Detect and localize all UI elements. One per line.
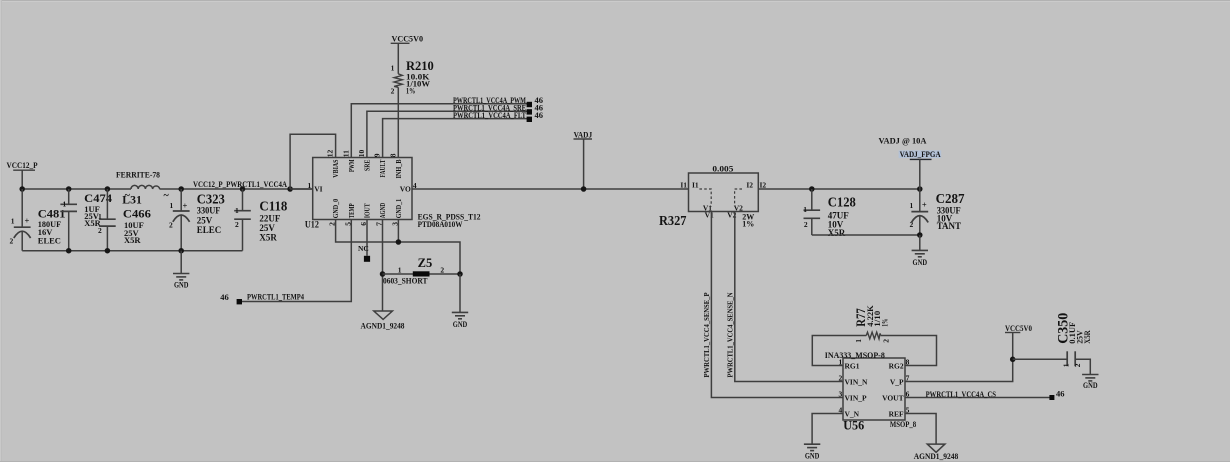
node junction C118 (240, 186, 246, 192)
svg-text:1: 1 (910, 201, 914, 210)
resistor R327 body (689, 173, 759, 212)
svg-text:PWRCTL1_VCC4_SENSE_N: PWRCTL1_VCC4_SENSE_N (726, 292, 735, 378)
svg-text:C118: C118 (259, 200, 287, 215)
svg-text:INH_B: INH_B (394, 160, 403, 179)
wire net PWRCTL1_VCC4A_SRE (367, 111, 529, 157)
svg-text:FERRITE-78: FERRITE-78 (116, 170, 160, 180)
ground AGND1_9248 triangle (374, 311, 393, 319)
svg-text:AGND1_9248: AGND1_9248 (914, 451, 959, 461)
svg-text:RG2: RG2 (889, 362, 904, 371)
wire VOUT net (905, 397, 1050, 399)
svg-text:TEMP: TEMP (347, 203, 356, 218)
svg-text:C128: C128 (828, 196, 856, 211)
svg-text:R210: R210 (406, 59, 434, 73)
svg-text:RG1: RG1 (845, 362, 860, 371)
resistor R210 (394, 74, 402, 88)
svg-text:1%: 1% (742, 219, 754, 228)
wire VBIAS to rail (290, 134, 336, 189)
svg-text:330UF: 330UF (197, 206, 221, 216)
svg-text:1: 1 (803, 205, 807, 214)
svg-text:GND: GND (805, 451, 820, 461)
ground GND left (180, 251, 182, 274)
node junction C466 (105, 186, 111, 192)
wire net PWRCTL1_VCC4A_PWM (351, 104, 529, 158)
svg-text:46: 46 (535, 110, 544, 120)
svg-text:U56: U56 (843, 419, 864, 433)
svg-text:IOUT: IOUT (363, 203, 372, 218)
wire GND_0 GND_1 to GND (336, 220, 460, 275)
svg-text:V_N: V_N (845, 410, 860, 419)
svg-text:GND: GND (453, 319, 468, 329)
wire IOUT to NC (366, 220, 368, 256)
wire VI pin (290, 188, 313, 190)
svg-text:+: + (922, 200, 927, 210)
svg-text:2: 2 (838, 374, 842, 383)
wire I2 to VADJ_FPGA (758, 188, 920, 190)
svg-text:NC: NC (358, 244, 369, 253)
svg-text:FAULT: FAULT (378, 160, 387, 178)
svg-text:46: 46 (220, 292, 229, 302)
node junction Z5 pin1 (380, 271, 386, 277)
capacitor C287 (919, 189, 921, 212)
svg-text:VCC5V0: VCC5V0 (1005, 323, 1032, 333)
wire RG1 loop left (812, 336, 866, 366)
svg-text:1: 1 (11, 216, 15, 225)
window top edge (0, 0, 1230, 1)
svg-text:10: 10 (357, 149, 366, 157)
svg-text:TANT: TANT (937, 221, 961, 231)
node pad PWRCTL1_TEMP4 (237, 299, 242, 304)
node junction C287 bottom (917, 232, 923, 238)
wire AGND pin (382, 220, 384, 312)
svg-text:C466: C466 (123, 209, 151, 221)
svg-text:PWRCTL1_VCC4_SENSE_P: PWRCTL1_VCC4_SENSE_P (702, 292, 711, 377)
svg-text:+: + (25, 215, 30, 225)
svg-text:2: 2 (391, 87, 395, 96)
svg-text:1: 1 (854, 339, 863, 343)
svg-text:PWRCTL1_VCC4A_CS: PWRCTL1_VCC4A_CS (926, 389, 997, 399)
svg-text:22UF: 22UF (259, 213, 280, 223)
svg-text:X5R: X5R (1083, 330, 1092, 344)
wire C350 to GND (1075, 359, 1090, 374)
wire VO to R327 (412, 188, 689, 190)
wire REF to AGND (905, 414, 936, 445)
svg-text:+: + (183, 201, 188, 211)
svg-text:VCC5V0: VCC5V0 (392, 34, 424, 44)
node junction bottom C323 (178, 248, 184, 254)
svg-text:0603_SHORT: 0603_SHORT (383, 275, 428, 285)
node junction VBIAS tap (287, 186, 293, 192)
resistor R77 (866, 332, 880, 339)
svg-text:1: 1 (391, 63, 395, 72)
svg-text:V1: V1 (705, 210, 714, 219)
node junction C128 (809, 186, 815, 192)
wire Z5 (383, 273, 461, 275)
svg-text:VO: VO (400, 184, 411, 193)
capacitor C118 (242, 189, 244, 211)
wire R327 internal dashed (699, 189, 711, 207)
node junction Z5 pin2 (457, 271, 463, 277)
svg-text:I2: I2 (746, 181, 753, 190)
svg-text:AGND1_9248: AGND1_9248 (361, 320, 405, 330)
svg-text:ELEC: ELEC (38, 235, 61, 245)
window left edge (0, 0, 1, 462)
wire PWRCTL1_VCC4_SENSE_P (711, 212, 843, 398)
svg-text:1%: 1% (406, 86, 415, 95)
svg-text:V_P: V_P (890, 378, 904, 387)
wire PWRCTL1_VCC4_SENSE_N (735, 212, 843, 382)
svg-text:VCC12_P_PWRCTL1_VCC4A: VCC12_P_PWRCTL1_VCC4A (193, 179, 288, 189)
capacitor C481 (21, 189, 23, 227)
wire GND_1 stub (397, 220, 399, 243)
svg-text:0.005: 0.005 (712, 165, 733, 174)
svg-text:~: ~ (125, 190, 131, 201)
wire VADJ_FPGA down (919, 159, 921, 189)
svg-text:2: 2 (440, 266, 444, 275)
svg-text:2: 2 (910, 220, 914, 229)
svg-text:1: 1 (98, 212, 102, 221)
node pad PWRCTL1_VCC4A_SRE (527, 109, 532, 114)
wire caps bottom rail (812, 234, 920, 236)
svg-text:VADJ: VADJ (574, 129, 593, 139)
svg-text:AGND: AGND (378, 202, 387, 218)
svg-text:2: 2 (235, 220, 239, 229)
resistor Z5 0603_SHORT (413, 271, 430, 276)
wire to C350 (1013, 358, 1067, 360)
wire V_P to VCC5V0 (905, 359, 1013, 381)
wire RG2 loop right (881, 336, 937, 366)
svg-text:2: 2 (10, 237, 14, 246)
node pad PWRCTL1_VCC4A_PWM (527, 102, 532, 107)
svg-text:1: 1 (235, 206, 239, 215)
svg-text:REF: REF (889, 410, 904, 419)
svg-text:VADJ_FPGA: VADJ_FPGA (900, 149, 942, 159)
svg-text:3: 3 (838, 390, 842, 399)
ground GND under C287 (919, 235, 921, 250)
svg-text:INA333_MSOP-8: INA333_MSOP-8 (825, 350, 885, 360)
capacitor C323 (180, 189, 182, 211)
node junction VCC5V0 C350 (1010, 357, 1016, 363)
capacitor C350 (1066, 351, 1068, 366)
capacitor C466 (106, 189, 108, 219)
op-amp U56 body (843, 358, 905, 420)
svg-text:1: 1 (63, 199, 67, 208)
wire net PWRCTL1_VCC4A_FLT (383, 119, 530, 158)
svg-text:2: 2 (98, 226, 102, 235)
wire VCC12_P rail (22, 188, 131, 190)
node junction C481 (19, 186, 25, 192)
svg-text:1: 1 (170, 201, 174, 210)
node junction bottom C466 (105, 248, 111, 254)
svg-text:46: 46 (1056, 389, 1065, 399)
wire PWRCTL1_VCC4A rail (160, 188, 313, 190)
svg-text:PWM: PWM (347, 160, 356, 173)
node pad PWRCTL1_VCC4A_CS (1049, 395, 1054, 400)
svg-text:PTD08A010W: PTD08A010W (418, 219, 463, 229)
node junction VADJ (581, 186, 587, 192)
capacitor C128 (811, 189, 813, 210)
svg-text:MSOP_8: MSOP_8 (890, 419, 916, 429)
svg-text:11: 11 (341, 150, 350, 157)
wire V_N to GND (812, 414, 843, 445)
svg-text:X5R: X5R (124, 235, 141, 245)
op-amp U12 body (313, 158, 412, 220)
svg-text:GND: GND (1083, 380, 1098, 390)
svg-text:1: 1 (1062, 363, 1071, 367)
wire bottom rail (22, 250, 242, 252)
svg-text:U12: U12 (305, 220, 319, 230)
svg-text:VIN_P: VIN_P (845, 394, 868, 403)
svg-text:GND_0: GND_0 (331, 199, 340, 219)
svg-text:GND: GND (174, 280, 189, 290)
svg-text:X5R: X5R (828, 228, 846, 238)
svg-text:GND_1: GND_1 (394, 199, 403, 219)
node junction bottom C474 (66, 248, 72, 254)
svg-text:VCC12_P: VCC12_P (7, 160, 38, 170)
svg-text:2: 2 (804, 220, 808, 229)
svg-text:12: 12 (326, 149, 335, 157)
svg-text:VI: VI (314, 184, 322, 193)
ground GND under Z5 (459, 274, 461, 312)
window bottom edge (0, 461, 1230, 462)
svg-text:I1: I1 (680, 181, 687, 190)
net label VADJ_FPGA highlighted (899, 150, 942, 158)
wire R210 to INH_B (397, 87, 399, 157)
ground GND under V_N (804, 443, 820, 445)
wire net PWRCTL1_TEMP4 (242, 220, 352, 302)
svg-text:SRE: SRE (363, 160, 372, 172)
svg-text:2: 2 (169, 220, 173, 229)
svg-text:VIN_N: VIN_N (845, 378, 869, 387)
svg-text:PWRCTL1_VCC4A_FLT: PWRCTL1_VCC4A_FLT (453, 110, 526, 120)
svg-text:X5R: X5R (259, 232, 277, 242)
ground AGND1_9248 under REF (927, 444, 945, 452)
node pad PWRCTL1_VCC4A_FLT (527, 117, 532, 122)
ground GND under C350 (1082, 374, 1098, 376)
svg-text:1: 1 (398, 266, 402, 275)
svg-text:R327: R327 (659, 214, 687, 229)
node junction C323 (178, 186, 184, 192)
node junction GND_1 (396, 239, 402, 245)
inductor L31 ferrite bead (131, 185, 160, 189)
svg-text:VADJ @ 10A: VADJ @ 10A (879, 136, 928, 146)
node junction C287 (917, 186, 923, 192)
svg-text:GND: GND (913, 257, 928, 267)
svg-text:Z5: Z5 (418, 255, 433, 270)
svg-text:ELEC: ELEC (197, 225, 222, 235)
svg-text:I1: I1 (692, 181, 699, 190)
node junction C474 (66, 186, 72, 192)
svg-text:2: 2 (1073, 363, 1082, 367)
svg-text:25V: 25V (197, 215, 213, 225)
svg-text:PWRCTL1_TEMP4: PWRCTL1_TEMP4 (247, 292, 305, 302)
capacitor C474 (68, 189, 70, 204)
svg-text:VOUT: VOUT (882, 394, 904, 403)
svg-text:8: 8 (388, 153, 397, 157)
svg-text:VBIAS: VBIAS (331, 160, 340, 178)
svg-text:1%: 1% (880, 318, 889, 326)
svg-text:2: 2 (881, 339, 890, 343)
svg-text:9: 9 (373, 153, 382, 157)
